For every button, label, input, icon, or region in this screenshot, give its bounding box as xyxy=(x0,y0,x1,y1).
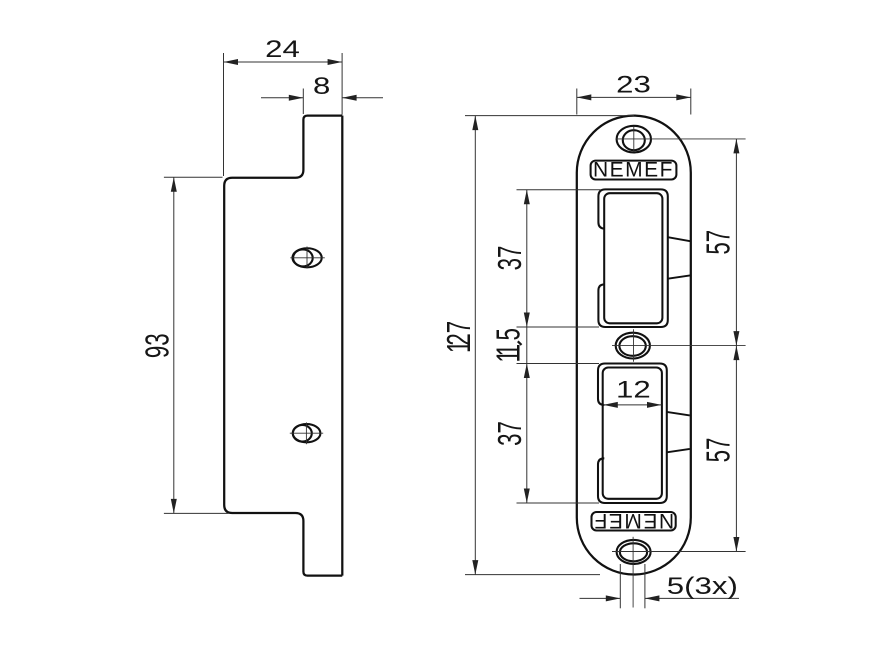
svg-text:93: 93 xyxy=(139,333,175,358)
svg-text:12: 12 xyxy=(616,376,651,403)
svg-text:127: 127 xyxy=(441,321,477,353)
svg-text:NEMEF: NEMEF xyxy=(593,509,674,532)
svg-text:NEMEF: NEMEF xyxy=(593,159,674,182)
svg-text:57: 57 xyxy=(700,438,736,463)
svg-text:8: 8 xyxy=(313,72,330,99)
svg-text:24: 24 xyxy=(265,36,300,63)
svg-text:5(3x): 5(3x) xyxy=(667,572,738,599)
svg-text:57: 57 xyxy=(700,230,736,255)
svg-text:37: 37 xyxy=(491,421,527,446)
svg-text:23: 23 xyxy=(616,71,651,98)
svg-text:37: 37 xyxy=(491,246,527,271)
